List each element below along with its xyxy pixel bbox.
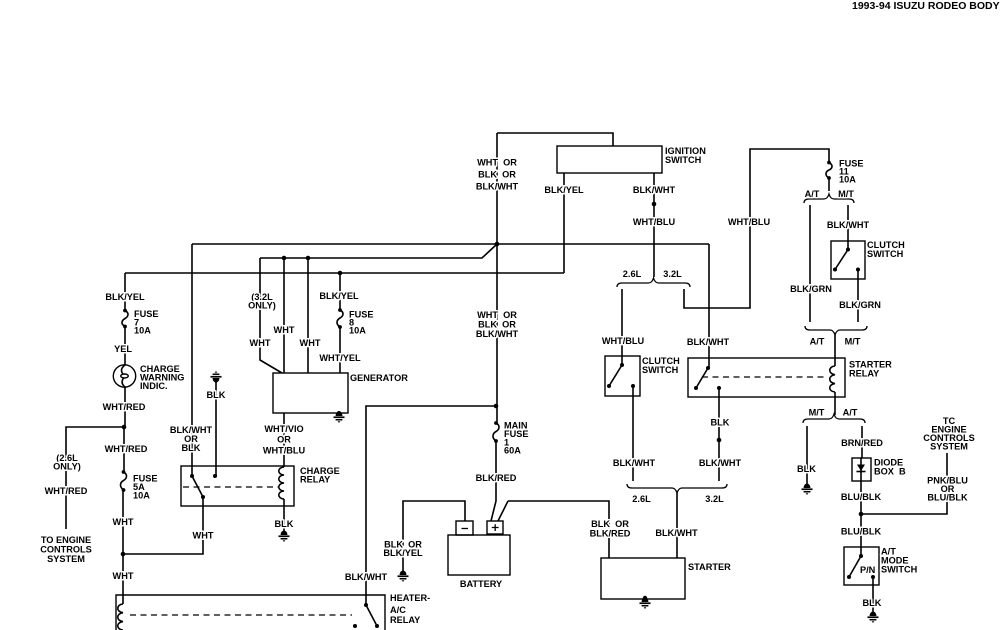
generator box <box>273 373 348 413</box>
svg-text:60A: 60A <box>504 446 521 456</box>
svg-text:10A: 10A <box>839 175 856 185</box>
splice node BLK/WHT-WHT/BLU <box>652 202 657 207</box>
wire BLK/WHT ignition drop WHT/BLU <box>653 173 655 277</box>
ground at charge relay coil <box>279 530 290 542</box>
svg-text:BLK/WHT: BLK/WHT <box>827 220 870 230</box>
wire 2.6L-only branch to engine controls <box>66 427 124 529</box>
diode box B box <box>852 458 871 481</box>
ground above charge relay (flipped) <box>211 371 222 383</box>
wire WHT/RED indicator down to junction <box>124 387 126 427</box>
junction node WHT/RED branch <box>122 425 127 430</box>
svg-text:BLK/WHT: BLK/WHT <box>655 528 698 538</box>
svg-text:2.6L: 2.6L <box>632 494 651 504</box>
svg-text:WHT/BLU: WHT/BLU <box>602 336 645 346</box>
svg-text:WHT: WHT <box>113 571 134 581</box>
wire starter relay coil feed <box>834 335 836 366</box>
svg-text:ONLY): ONLY) <box>53 462 81 472</box>
svg-text:ONLY): ONLY) <box>248 301 276 311</box>
A/T mode switch blade <box>859 554 863 558</box>
wire A/T branch BLK/GRN <box>809 205 811 322</box>
svg-text:WHT/RED: WHT/RED <box>103 402 146 412</box>
starter relay switch <box>706 366 710 370</box>
svg-text:BLU/BLK: BLU/BLK <box>841 527 882 537</box>
svg-text:BOX B: BOX B <box>874 467 906 477</box>
wire A/T mode switch output BLK <box>872 577 874 611</box>
junction node BLU/BLK <box>859 512 864 517</box>
svg-text:3.2L: 3.2L <box>705 494 724 504</box>
fuse 5A symbol <box>122 470 126 474</box>
starter relay coil <box>830 366 835 392</box>
wire generator bus line B with diagonal to junction <box>260 244 497 258</box>
svg-text:BLK/WHT: BLK/WHT <box>687 337 730 347</box>
battery box <box>448 535 510 575</box>
svg-text:INDIC.: INDIC. <box>140 381 168 391</box>
wire fuse 8 branch upper <box>339 273 341 310</box>
wire heater a/c relay feed BLK/WHT <box>366 406 496 605</box>
wire M/T branch BLK/WHT to clutch switch <box>847 205 849 249</box>
wire M/T BLK to ground <box>806 426 808 483</box>
svg-text:10A: 10A <box>134 326 151 336</box>
svg-text:BLK/GRN: BLK/GRN <box>839 300 881 310</box>
wire starter relay coil output <box>834 392 836 415</box>
splice node BLK-BLK/WHT <box>717 438 722 443</box>
svg-text:WHT OR: WHT OR <box>477 310 517 320</box>
diode symbol in diode box B <box>860 458 862 481</box>
brace 2.6L/3.2L under ignition <box>617 278 690 287</box>
svg-text:WHT/RED: WHT/RED <box>105 444 148 454</box>
ground at generator case <box>337 411 341 415</box>
svg-text:WHT/BLU: WHT/BLU <box>633 217 676 227</box>
wire bus line A (y=244) <box>192 243 709 245</box>
svg-text:BLK OR: BLK OR <box>478 320 516 330</box>
clutch switch blade (M/T right) <box>846 248 850 252</box>
svg-text:WHT: WHT <box>113 517 134 527</box>
wire BLK/YEL drop from ignition switch <box>563 173 565 273</box>
svg-text:CONTROLS: CONTROLS <box>40 545 92 555</box>
fuse 8 symbol <box>338 308 342 312</box>
svg-text:BLK/WHT: BLK/WHT <box>613 458 656 468</box>
wire WHT left column to heater relay coil <box>122 490 124 604</box>
svg-text:BLK OR: BLK OR <box>478 170 516 180</box>
clutch switch blade (2.6L) <box>620 363 624 367</box>
svg-text:BLK/YEL: BLK/YEL <box>544 185 584 195</box>
svg-text:WHT: WHT <box>250 338 271 348</box>
svg-text:SWITCH: SWITCH <box>665 155 702 165</box>
battery minus sign <box>462 528 469 530</box>
wire WHT/YEL fuse 8 to generator <box>339 327 341 373</box>
wire 3.2L branch to fuse 11 feed <box>684 149 829 308</box>
brace 2.6L/3.2L above starter <box>627 484 727 493</box>
svg-text:WHT/RED: WHT/RED <box>45 486 88 496</box>
heater relay dashed link <box>130 614 352 616</box>
svg-text:BLK/WHT: BLK/WHT <box>633 185 676 195</box>
ground at starter relay M/T BLK <box>802 483 813 495</box>
svg-text:BATTERY: BATTERY <box>460 579 502 589</box>
svg-text:BLK/WHT: BLK/WHT <box>699 458 742 468</box>
clutch switch box (M/T right) <box>831 241 865 279</box>
wire A/T BRN/RED to diode box <box>861 426 863 458</box>
svg-text:10A: 10A <box>133 491 150 501</box>
svg-text:SYSTEM: SYSTEM <box>47 554 85 564</box>
svg-text:RELAY: RELAY <box>849 369 879 379</box>
battery plus terminal <box>487 521 503 534</box>
wire WHT OR BLK OR BLK/WHT main vertical to main fuse <box>496 133 498 422</box>
wire battery minus BLK OR BLK/YEL <box>403 501 465 570</box>
svg-text:WHT/YEL: WHT/YEL <box>319 353 361 363</box>
svg-text:OR: OR <box>277 435 291 445</box>
wire WHT generator mid <box>283 258 285 373</box>
svg-text:BLK: BLK <box>797 464 816 474</box>
wire BLK/WHT brace to starter <box>676 493 678 558</box>
svg-text:HEATER-: HEATER- <box>390 593 430 603</box>
svg-text:BLK: BLK <box>275 519 294 529</box>
svg-text:BLK: BLK <box>711 418 730 428</box>
wire clutch switch output BLK/WHT 2.6L <box>632 386 634 481</box>
svg-text:P/N: P/N <box>860 565 876 575</box>
svg-text:A/T: A/T <box>805 189 820 199</box>
wire BLU/BLK diode to A/T mode switch <box>860 481 862 556</box>
junction node generator WHT right <box>306 256 311 261</box>
clutch switch box (2.6L) <box>605 356 640 396</box>
starter box <box>601 558 685 599</box>
wire BLK OR BLK/RED battery to starter <box>508 501 609 558</box>
junction node generator WHT mid <box>282 256 287 261</box>
A/T mode switch box <box>844 547 879 585</box>
svg-text:BLK/WHT: BLK/WHT <box>345 572 388 582</box>
charge relay box <box>181 466 294 506</box>
ground at battery minus <box>398 570 409 582</box>
wire WHT/BLU 2.6L branch to clutch switch <box>621 289 623 365</box>
svg-text:A/T: A/T <box>843 408 858 418</box>
svg-text:RELAY: RELAY <box>300 475 330 485</box>
svg-text:M/T: M/T <box>809 408 825 418</box>
fuse 7 symbol <box>123 309 127 313</box>
wire battery plus diagonals <box>491 442 508 521</box>
wire starter relay input BLK/WHT <box>708 244 710 368</box>
svg-text:STARTER: STARTER <box>688 562 731 572</box>
svg-text:BLU/BLK: BLU/BLK <box>841 492 882 502</box>
svg-text:3.2L: 3.2L <box>663 269 682 279</box>
svg-text:BLK/YEL: BLK/YEL <box>105 292 145 302</box>
wire fuse 11 output <box>828 178 830 191</box>
svg-text:SYSTEM: SYSTEM <box>930 442 968 452</box>
wire YEL fuse7 to charge warning indicator <box>124 327 126 365</box>
charge relay coil <box>279 467 284 499</box>
wire charge relay coil output BLK <box>283 499 285 530</box>
junction node fuse 8 tap <box>338 271 343 276</box>
charge relay dashed link <box>183 486 278 488</box>
svg-text:WHT OR: WHT OR <box>477 158 517 168</box>
svg-text:A/T: A/T <box>810 337 825 347</box>
svg-text:BRN/RED: BRN/RED <box>841 438 883 448</box>
svg-text:GENERATOR: GENERATOR <box>350 373 408 383</box>
junction node on line A (battery feed) <box>495 242 500 247</box>
wire clutch switch output BLK/GRN <box>857 269 859 322</box>
brace A/T M/T under fuse 11 <box>804 194 854 203</box>
svg-text:WHT/BLU: WHT/BLU <box>263 446 306 456</box>
battery minus terminal <box>456 521 473 535</box>
junction node WHT left column <box>121 552 126 557</box>
ignition switch box <box>557 146 662 173</box>
svg-text:RELAY: RELAY <box>390 615 420 625</box>
svg-text:M/T: M/T <box>838 189 854 199</box>
wire WHT charge relay switch output to left column <box>123 497 203 554</box>
svg-text:WHT: WHT <box>274 325 295 335</box>
svg-text:BLU/BLK: BLU/BLK <box>927 493 968 503</box>
svg-text:SWITCH: SWITCH <box>642 365 679 375</box>
svg-text:BLK/YEL: BLK/YEL <box>383 548 423 558</box>
brace M/T A/T under starter relay <box>803 414 865 423</box>
wire ignition switch feed (top loop to x=497) <box>497 133 613 146</box>
main fuse 1 symbol <box>494 421 498 425</box>
svg-text:WHT: WHT <box>193 531 214 541</box>
charge relay switch <box>190 474 194 478</box>
svg-text:BLK: BLK <box>863 598 882 608</box>
wire charge relay ground contact BLK <box>215 381 217 476</box>
wire WHT generator right <box>307 258 309 373</box>
battery plus sign <box>492 524 499 531</box>
svg-text:BLK/RED: BLK/RED <box>590 529 631 539</box>
svg-text:BLK OR: BLK OR <box>591 519 629 529</box>
brace A/T M/T above starter relay <box>805 326 867 335</box>
wire fuse 7 branch upper <box>124 273 126 310</box>
svg-text:BLK: BLK <box>207 390 226 400</box>
wire BLK/YEL bus line C (y=273) <box>125 272 564 274</box>
svg-text:BLK: BLK <box>182 443 201 453</box>
starter relay box <box>688 358 845 397</box>
ground at starter case <box>643 596 647 600</box>
svg-text:WHT/BLU: WHT/BLU <box>728 217 771 227</box>
svg-text:BLK/WHT: BLK/WHT <box>476 182 519 192</box>
svg-text:TO ENGINE: TO ENGINE <box>41 535 91 545</box>
svg-text:YEL: YEL <box>114 344 132 354</box>
svg-text:SWITCH: SWITCH <box>867 249 904 259</box>
wire WHT/RED junction to fuse 5A <box>123 427 125 472</box>
svg-text:A/C: A/C <box>390 605 406 615</box>
svg-text:BLK/WHT: BLK/WHT <box>476 329 519 339</box>
wire BLU/BLK junction to TC engine controls <box>861 453 947 514</box>
wire (3.2L only) WHT drop to generator <box>260 258 282 373</box>
fuse 11 symbol <box>827 161 831 165</box>
wire charge relay input BLK/WHT OR BLK <box>191 244 193 476</box>
svg-text:BLK/GRN: BLK/GRN <box>790 284 832 294</box>
svg-text:BLK/RED: BLK/RED <box>476 473 517 483</box>
heater a/c relay switch <box>364 603 368 607</box>
svg-text:BLK/YEL: BLK/YEL <box>319 291 359 301</box>
svg-text:1993-94 ISUZU RODEO BODY1: 1993-94 ISUZU RODEO BODY1 <box>852 0 1000 12</box>
svg-text:10A: 10A <box>349 326 366 336</box>
charge warning indicator lamp <box>113 365 135 387</box>
wire starter relay switch output BLK <box>718 388 720 481</box>
ground at A/T mode switch BLK <box>868 611 879 623</box>
svg-text:SWITCH: SWITCH <box>881 565 918 575</box>
svg-text:M/T: M/T <box>845 337 861 347</box>
starter relay dashed link <box>702 376 828 378</box>
svg-text:WHT: WHT <box>300 338 321 348</box>
heater relay coil <box>118 604 123 630</box>
wire generator output WHT/VIO to charge relay coil <box>283 413 285 467</box>
junction node main fuse tap <box>494 404 499 409</box>
heater a/c relay box (bottom cut) <box>116 595 385 630</box>
svg-text:WHT/VIO: WHT/VIO <box>264 424 303 434</box>
svg-text:2.6L: 2.6L <box>623 269 642 279</box>
